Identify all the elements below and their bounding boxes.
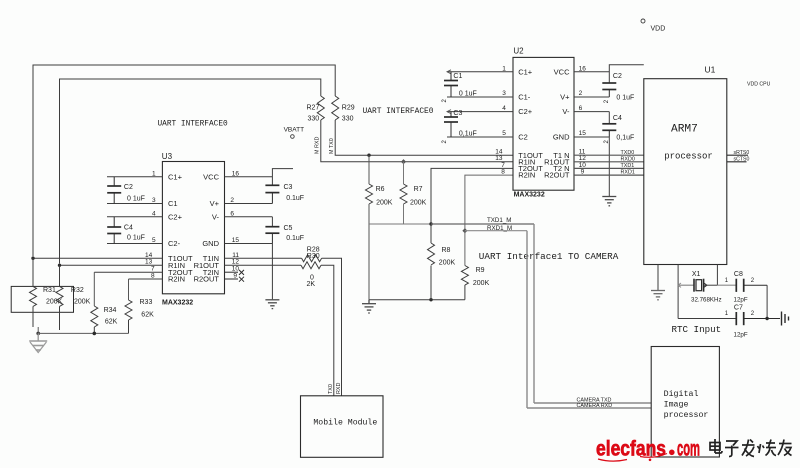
net TXD0 wire bbox=[574, 154, 644, 156]
junction diamond RXD1_M bbox=[462, 228, 467, 233]
wire rail stub up bbox=[37, 327, 39, 333]
wire U2 pin3 bbox=[447, 96, 513, 98]
wire crystal bottom rail bbox=[678, 318, 736, 320]
svg-text:sRTS0: sRTS0 bbox=[734, 150, 750, 156]
junction dot R8 bottom bbox=[429, 298, 432, 301]
svg-text:12pF: 12pF bbox=[734, 332, 748, 339]
wire U3 V- to C5 bbox=[225, 217, 273, 227]
logo chinese 发 bbox=[742, 440, 755, 457]
junction dot TXD1_M bbox=[429, 222, 432, 225]
svg-text:Digital: Digital bbox=[664, 389, 699, 399]
wire outer top loop bbox=[33, 65, 513, 256]
capacitor C8 bbox=[736, 279, 767, 292]
svg-text:RTC Input: RTC Input bbox=[672, 324, 722, 335]
wire R6-R7 bottom tick bbox=[369, 223, 431, 225]
wire U2 V+ bbox=[574, 96, 609, 98]
ground (U2) bbox=[602, 197, 616, 206]
junction dot T1OUT bbox=[31, 257, 34, 260]
wire GND stem U2 bbox=[608, 137, 610, 197]
resistor R32 bbox=[56, 286, 63, 306]
wire ground rail bbox=[38, 332, 128, 334]
wire U3 pin5 bbox=[107, 243, 162, 245]
ground rail middle bbox=[369, 299, 465, 301]
capacitor C5 (U3 right) bbox=[265, 227, 279, 244]
svg-text:1: 1 bbox=[725, 311, 729, 317]
svg-text:VDD CPU: VDD CPU bbox=[747, 82, 771, 88]
cap pin1 arrow C3 bbox=[447, 110, 451, 114]
wire R32 tail bbox=[59, 306, 61, 330]
logo chinese 友 bbox=[778, 440, 792, 456]
resistor R27 bbox=[317, 96, 324, 120]
resistor R28 bbox=[302, 255, 322, 262]
U2 pin labels right bbox=[544, 67, 570, 179]
junction dot ground rail left bbox=[36, 332, 40, 336]
op-amp U3 MAX3232 body bbox=[162, 152, 225, 307]
svg-text:processor: processor bbox=[664, 152, 713, 162]
wire inner top loop bbox=[60, 79, 514, 264]
U3 pin labels right bbox=[194, 172, 220, 283]
wire camera TXD vertical bbox=[533, 224, 535, 403]
wire U3 T1IN row bbox=[225, 257, 302, 259]
logo chinese 电 bbox=[710, 439, 722, 453]
power VDD bbox=[641, 19, 665, 33]
capacitor C4 (U3 left) bbox=[107, 217, 121, 244]
resistor R9 bbox=[461, 231, 468, 300]
net RXD1 wire bbox=[574, 174, 644, 176]
capacitor C3 (U2 left) bbox=[444, 112, 458, 137]
logo chinese 子 bbox=[725, 441, 739, 457]
wire CAMERA RXD horizontal bbox=[527, 407, 651, 409]
wire U2 pin4 bbox=[447, 111, 513, 113]
U2 pin labels left bbox=[518, 67, 543, 179]
svg-text:32.768KHz: 32.768KHz bbox=[691, 297, 722, 304]
wire U3 R2IN row bbox=[129, 278, 163, 280]
module Mobile Module box bbox=[301, 396, 384, 458]
wire crystal loop left bbox=[677, 265, 679, 319]
svg-text:2: 2 bbox=[751, 278, 755, 284]
resistor R33 bbox=[125, 279, 132, 333]
capacitor C2 (U3 left) bbox=[107, 177, 121, 204]
capacitor C1 (U2 left) bbox=[444, 72, 458, 97]
net TXD1 wire bbox=[574, 167, 644, 169]
power VBATT bbox=[284, 127, 304, 139]
cap pin1 arrow C1 bbox=[447, 70, 451, 74]
logo elecfans.com bbox=[596, 438, 700, 462]
net sCTS0 bbox=[727, 161, 747, 163]
svg-text:12pF: 12pF bbox=[734, 297, 748, 304]
no-connect X pin9 bbox=[225, 277, 245, 282]
wire U3 R1IN row bbox=[60, 264, 163, 266]
U3 pin labels left bbox=[168, 172, 193, 283]
resistor R30 bbox=[301, 262, 321, 269]
wire U3 T1OUT row bbox=[33, 257, 162, 259]
svg-text:sCTS0: sCTS0 bbox=[734, 156, 750, 162]
svg-text:X1: X1 bbox=[692, 271, 701, 278]
svg-text:C8: C8 bbox=[734, 271, 743, 278]
wire C8 to C7 right side bbox=[766, 285, 768, 318]
wire U2 VCC bbox=[574, 71, 609, 73]
wire xtal right drop bbox=[716, 265, 718, 286]
capacitor C3 (U3 right) bbox=[265, 185, 279, 203]
wire U2 pin8 R2IN bbox=[465, 175, 513, 231]
svg-text:C7: C7 bbox=[734, 305, 743, 312]
wire R31 tail bbox=[32, 306, 34, 327]
logo chinese 烧 bbox=[758, 440, 777, 456]
junction dot C7 right bbox=[765, 317, 768, 320]
svg-text:Image: Image bbox=[664, 401, 689, 410]
wire R1OUT to mobile RX bbox=[321, 265, 334, 396]
wire U3 GND bbox=[225, 243, 273, 245]
wire T1IN to mobile TX bbox=[322, 258, 342, 396]
wire camera RXD vertical bbox=[526, 231, 528, 408]
wire ARM ground stem bbox=[657, 265, 659, 291]
wire CAMERA TXD horizontal bbox=[534, 402, 651, 404]
wire U3 T2OUT row bbox=[94, 271, 162, 273]
net RXD0 wire bbox=[574, 161, 644, 163]
wire to C8 pin1 bbox=[717, 284, 736, 286]
svg-text:2: 2 bbox=[751, 311, 755, 317]
wire R31 column bbox=[32, 258, 34, 286]
svg-text:processor: processor bbox=[664, 411, 709, 420]
svg-text:com: com bbox=[677, 438, 700, 461]
U2 pin numbers bbox=[495, 65, 586, 175]
ground (ARM) bbox=[651, 291, 665, 300]
U3 pin numbers bbox=[145, 170, 239, 279]
resistor R7 bbox=[400, 159, 407, 224]
wire GND stem U3 bbox=[271, 244, 273, 300]
svg-text:ARM7: ARM7 bbox=[671, 123, 698, 135]
op-amp U2 MAX3232 body bbox=[513, 47, 574, 199]
wire U3 pin3 bbox=[107, 203, 162, 205]
svg-text:U1: U1 bbox=[705, 65, 716, 75]
ground (RTC right, rotated) bbox=[782, 312, 789, 326]
wire U3 V+ bbox=[225, 203, 273, 205]
net TXD1_M wire bbox=[431, 223, 534, 225]
node bypass box around R31 R32 bbox=[11, 286, 73, 312]
wire U2 pin1 bbox=[447, 71, 513, 73]
net RXD1_M wire bbox=[465, 230, 527, 232]
wire U3 pin1 bbox=[107, 176, 162, 178]
processor U1 ARM7 body bbox=[644, 65, 727, 265]
capacitor C7 bbox=[736, 312, 780, 325]
wire U3 R1OUT row bbox=[225, 264, 302, 266]
wire U2 GND bbox=[574, 136, 609, 138]
svg-text:1: 1 bbox=[725, 278, 729, 284]
resistor R31 bbox=[30, 286, 37, 306]
wire U2 pin5 bbox=[447, 136, 513, 138]
wire C2 top lead bbox=[609, 65, 644, 83]
wire U2 V- to C4 bbox=[574, 112, 609, 124]
net sRTS0 bbox=[727, 154, 748, 156]
module Digital Image processor box bbox=[651, 347, 719, 458]
resistor R29 bbox=[332, 96, 339, 120]
capacitor C4 (U2 right) bbox=[602, 124, 616, 137]
ground (left gray) bbox=[29, 333, 47, 352]
resistor R8 bbox=[428, 224, 435, 300]
wire U3 pin4 bbox=[107, 216, 162, 218]
capacitor C2 (U2 right) bbox=[602, 83, 616, 97]
resistor R34 bbox=[91, 272, 98, 335]
wire U2 pin7 T2OUT bbox=[431, 168, 513, 224]
wire R32 column bbox=[59, 265, 61, 286]
no-connect X pin10 bbox=[225, 270, 245, 275]
ground (middle) bbox=[362, 300, 376, 313]
resistor R6 bbox=[366, 154, 373, 300]
ground (U3) bbox=[265, 300, 279, 309]
crystal X1 bbox=[678, 279, 717, 292]
wire U3 VCC to C3 bbox=[225, 169, 294, 186]
junction dot R1IN bbox=[58, 264, 61, 267]
